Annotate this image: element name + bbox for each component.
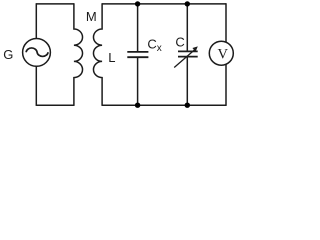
voltmeter V circle	[209, 41, 233, 65]
wire: capacitor Cx branch lower	[137, 57, 139, 105]
junction dot top C	[185, 1, 190, 6]
svg-text:M: M	[86, 9, 97, 24]
capacitor Cx plates	[127, 52, 148, 57]
generator G circle	[23, 39, 51, 67]
wire: capacitor Cx branch upper	[137, 4, 139, 52]
svg-text:C: C	[175, 35, 184, 50]
junction dot bottom C	[185, 103, 190, 108]
wire: generator branch vertical	[35, 3, 37, 106]
capacitor C variable arrow	[174, 46, 198, 67]
inductor L secondary winding	[93, 3, 102, 106]
junction dot bottom Cx	[135, 103, 140, 108]
generator sine wave	[26, 48, 48, 56]
svg-text:G: G	[3, 47, 13, 62]
svg-text:Cx: Cx	[147, 36, 161, 54]
wire: capacitor C branch upper	[186, 4, 188, 52]
svg-text:L: L	[108, 50, 115, 65]
capacitor C plates (variable)	[178, 51, 198, 56]
wire: secondary loop bottom rail	[102, 104, 226, 106]
wire: capacitor C branch lower	[186, 57, 188, 106]
wire: primary loop bottom rail	[36, 104, 74, 106]
wire: voltmeter branch vertical	[225, 3, 227, 106]
svg-text:V: V	[217, 46, 228, 62]
inductor M primary winding	[74, 3, 83, 106]
wire: primary loop top rail	[36, 3, 74, 5]
junction dot top Cx	[135, 1, 140, 6]
wire: secondary loop top rail	[102, 3, 226, 5]
